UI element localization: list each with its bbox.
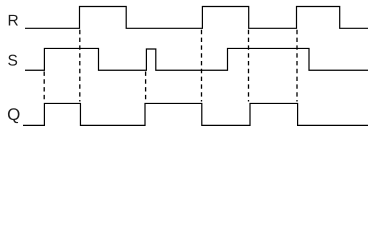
waveform trace Q	[23, 103, 368, 125]
dashed marker at S pulse rising edge / Q rising edge 2	[145, 72, 147, 102]
svg-text:Q: Q	[7, 105, 20, 124]
dashed marker at R rising edge 3 / Q falling edge 3	[296, 30, 298, 102]
waveform trace R	[25, 7, 368, 29]
dashed marker at S rising edge 1 / Q rising edge 1	[43, 72, 45, 102]
svg-text:S: S	[8, 52, 18, 69]
dashed marker at R falling edge 2 / Q rising edge 3	[248, 30, 250, 102]
dashed marker at R rising edge 2 / Q falling edge 2	[201, 30, 203, 102]
dashed marker at R rising edge 1 / Q falling edge 1	[79, 30, 81, 102]
waveform trace S	[25, 48, 368, 70]
svg-text:R: R	[8, 12, 19, 29]
